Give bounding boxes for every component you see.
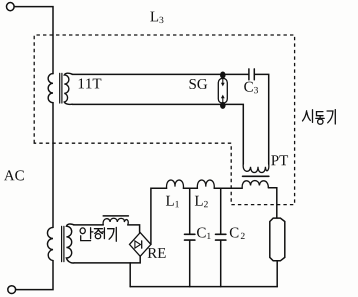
capacitor C2 <box>220 188 222 234</box>
RE diode symbol <box>135 241 141 248</box>
wire: lamp bottom to rail <box>276 261 278 287</box>
AC input terminal (bottom) <box>8 286 16 294</box>
label 시동기 (starter) <box>303 110 336 125</box>
T1 secondary <box>64 73 72 104</box>
wire: T1 primary bottom to T2 primary top <box>52 103 54 228</box>
wire: T1 secondary bottom to SG bottom <box>72 103 220 105</box>
label L3 <box>150 12 163 24</box>
label AC <box>4 170 24 180</box>
label L2 <box>195 196 208 207</box>
label C2 <box>230 227 245 239</box>
transformer PT primary (top coil) <box>243 164 269 173</box>
PT core <box>243 175 269 177</box>
wire: RE right corner up and over to L1 <box>151 188 167 244</box>
wire: top terminal to T1 primary <box>14 7 53 74</box>
T2 secondary <box>66 224 74 263</box>
ballast choke core <box>103 215 128 217</box>
label SG <box>190 79 208 89</box>
wire: T2 primary bottom to bottom terminal <box>16 261 53 290</box>
bottom rail wire <box>130 286 277 288</box>
enclosure: dashed starter-unit boundary <box>34 35 294 205</box>
T1 core <box>60 73 62 103</box>
label C3 <box>244 82 258 94</box>
capacitor C1 <box>189 188 191 234</box>
wire: ballast bottom junction down to rail <box>129 263 131 287</box>
wire: RE bottom corner to ballast bottom <box>74 256 140 263</box>
wire: PT secondary right to lamp <box>268 188 276 218</box>
wire: C3 to PT primary right <box>255 74 269 164</box>
wire: choke to RE top corner <box>128 225 140 233</box>
transformer T2 primary <box>47 227 53 260</box>
label L1 <box>166 196 179 207</box>
wire: T1 secondary top to SG top <box>72 73 220 75</box>
spark gap SG <box>218 72 227 109</box>
inductor L2 <box>197 180 214 188</box>
wire: L2 to PT secondary left (node C2) <box>214 187 242 189</box>
capacitor C3 <box>249 69 254 80</box>
label 안정기 (ballast) <box>80 227 116 241</box>
label 11T <box>79 79 102 89</box>
inductor L1 <box>167 180 184 188</box>
lamp tube (igniter) <box>270 218 285 261</box>
transformer PT secondary (bottom coil) <box>242 181 268 188</box>
label PT <box>271 155 288 165</box>
ballast choke inductor <box>103 218 128 225</box>
wire: L1 to L2 (node C1) <box>183 187 197 189</box>
T2 core <box>62 226 64 261</box>
AC input terminal (top) <box>7 3 15 11</box>
wire: SG top to C3 <box>226 73 249 75</box>
wire: T2 secondary top to ballast choke <box>74 224 104 226</box>
label RE <box>148 248 166 258</box>
wire: SG bottom to PT primary left <box>226 104 244 164</box>
rectifier RE (bridge diamond) <box>130 233 151 257</box>
transformer T1 primary (11T) <box>48 74 53 103</box>
label C1 <box>197 227 211 239</box>
